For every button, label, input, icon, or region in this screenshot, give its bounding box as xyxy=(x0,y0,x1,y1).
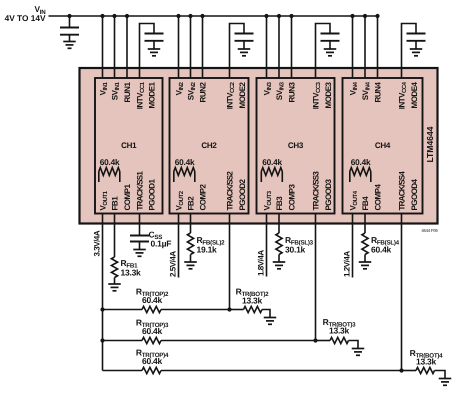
svg-text:13.3k: 13.3k xyxy=(329,326,350,336)
ground INTVCC3 bypass cap xyxy=(324,48,337,50)
svg-text:CH3: CH3 xyxy=(288,141,304,150)
capacitor CSS 0.1uF xyxy=(130,235,149,237)
svg-text:60.4k: 60.4k xyxy=(262,157,282,167)
svg-text:FB2: FB2 xyxy=(187,196,196,211)
wire VOUT1 down xyxy=(102,214,104,371)
junction TRACK/SS2 row2 xyxy=(227,307,231,311)
wire VIN rail to pin 1 CH1 xyxy=(114,16,116,78)
wire tracking row 2 mid xyxy=(161,309,230,311)
svg-text:13.3k: 13.3k xyxy=(242,296,263,306)
wire tracking row 2 left xyxy=(103,309,143,311)
wire INTVCC1 to bypass cap xyxy=(140,24,155,79)
svg-text:60.4k: 60.4k xyxy=(142,295,163,305)
resistor RTR(BOT)4 13.3k xyxy=(416,367,435,373)
svg-text:60.4k: 60.4k xyxy=(142,356,163,366)
svg-text:MODE3: MODE3 xyxy=(324,81,333,108)
svg-text:RUN2: RUN2 xyxy=(199,82,208,103)
ground RFB(SL)3 xyxy=(273,261,286,263)
resistor RTR(TOP)4 60.4k xyxy=(142,367,161,373)
svg-text:4V TO 14V: 4V TO 14V xyxy=(5,13,46,23)
junction VOUT1 row2 xyxy=(100,307,104,311)
svg-text:PGOOD2: PGOOD2 xyxy=(238,178,247,210)
wire VOUT2 stub xyxy=(178,214,180,278)
wire INTVCC3 to bypass cap xyxy=(316,24,331,79)
wire TRACK/SS1 down xyxy=(139,214,141,236)
wire VIN rail to pin 0 CH2 xyxy=(178,16,180,78)
ground CIN xyxy=(63,41,76,43)
svg-text:0.1µF: 0.1µF xyxy=(151,239,172,249)
resistor RFB(SL)2 19.1k xyxy=(187,233,193,255)
svg-text:MODE4: MODE4 xyxy=(410,81,419,108)
svg-text:13.3k: 13.3k xyxy=(121,268,142,278)
junction rail CH1-1 xyxy=(112,14,116,18)
svg-text:60.4k: 60.4k xyxy=(175,157,195,167)
wire VIN rail to pin 1 CH3 xyxy=(278,16,280,78)
wire VIN rail to pin 1 CH2 xyxy=(190,16,192,78)
ground INTVCC4 bypass cap xyxy=(410,48,423,50)
resistor RFB1 13.3k xyxy=(111,257,117,278)
ground RFB1 xyxy=(108,283,121,285)
wire TRACK/SS2 down xyxy=(229,214,231,310)
wire VIN rail to pin 1 CH4 xyxy=(364,16,366,78)
wire VIN rail to pin 2 CH4 xyxy=(377,16,379,78)
junction rail CH2-1 xyxy=(188,14,192,18)
resistor internal 60.4k CH3 xyxy=(260,172,262,183)
svg-text:CH4: CH4 xyxy=(375,141,391,150)
wire tracking row 4 mid xyxy=(161,370,402,372)
junction TRACK/SS4 row4 xyxy=(399,368,403,372)
svg-text:2.5V/4A: 2.5V/4A xyxy=(168,251,177,277)
svg-text:13.3k: 13.3k xyxy=(416,357,437,367)
junction rail CH1-2 xyxy=(125,14,129,18)
ground RTR(BOT)4 xyxy=(439,378,452,380)
svg-text:60.4k: 60.4k xyxy=(100,157,120,167)
junction TRACK/SS3 row3 xyxy=(313,338,317,342)
junction rail CH4-1 xyxy=(363,14,367,18)
capacitor CIN xyxy=(60,27,79,29)
resistor RTR(TOP)2 60.4k xyxy=(142,306,161,312)
junction rail CH2-0 xyxy=(176,14,180,18)
svg-text:LTM4644: LTM4644 xyxy=(425,126,435,162)
svg-text:TRACK/SS1: TRACK/SS1 xyxy=(136,171,145,211)
svg-text:CH1: CH1 xyxy=(121,141,137,150)
junction rail CH4-0 xyxy=(350,14,354,18)
svg-text:PGOOD3: PGOOD3 xyxy=(324,178,333,210)
wire RTR(BOT)2 to ground xyxy=(262,310,270,318)
capacitor INTVCC3 bypass xyxy=(321,33,340,35)
wire tracking row 4 left xyxy=(103,370,143,372)
svg-text:TRACK/SS3: TRACK/SS3 xyxy=(312,171,321,211)
resistor internal 60.4k CH2 xyxy=(173,172,175,183)
wire VIN rail to pin 0 CH3 xyxy=(266,16,268,78)
svg-text:CH2: CH2 xyxy=(201,141,217,150)
capacitor INTVCC1 bypass xyxy=(145,33,164,35)
channel block CH4 xyxy=(343,78,423,214)
wire RTR(BOT)3 to ground xyxy=(349,341,359,349)
wire INTVCC2 to bypass cap xyxy=(230,24,245,79)
wire VIN rail to pin 2 CH3 xyxy=(291,16,293,78)
wire TRACK/SS3 down xyxy=(315,214,317,341)
resistor RTR(BOT)2 13.3k xyxy=(244,306,263,312)
svg-text:RUN1: RUN1 xyxy=(123,82,132,103)
wire tracking row 3 left xyxy=(103,340,143,342)
svg-text:FB3: FB3 xyxy=(275,196,284,211)
wire tracking row 4 right xyxy=(402,370,417,372)
wire VIN rail to pin 2 CH2 xyxy=(202,16,204,78)
svg-text:FB4: FB4 xyxy=(361,196,370,211)
svg-text:MODE1: MODE1 xyxy=(148,81,157,108)
wire CIN drop xyxy=(69,16,71,28)
resistor internal 60.4k CH1 xyxy=(98,172,100,183)
ground RFB(SL)4 xyxy=(359,261,372,263)
resistor RTR(BOT)3 13.3k xyxy=(330,337,349,343)
svg-text:FB1: FB1 xyxy=(111,196,120,211)
resistor RFB(SL)4 60.4k xyxy=(362,233,368,255)
svg-text:RUN3: RUN3 xyxy=(288,82,297,103)
junction rail CH3-1 xyxy=(277,14,281,18)
wire FB4 down xyxy=(364,214,366,234)
channel block CH2 xyxy=(170,78,249,214)
wire tracking row 2 right xyxy=(230,309,244,311)
svg-text:RUN4: RUN4 xyxy=(374,82,383,103)
wire VIN rail to pin 2 CH1 xyxy=(126,16,128,78)
svg-text:19.1k: 19.1k xyxy=(197,245,218,255)
ground RFB(SL)2 xyxy=(184,261,197,263)
wire FB1 down xyxy=(114,214,116,258)
svg-text:COMP2: COMP2 xyxy=(199,184,208,211)
wire VIN rail to pin 0 CH4 xyxy=(352,16,354,78)
junction rail CH2-2 xyxy=(200,14,204,18)
wire FB3 down xyxy=(278,214,280,234)
svg-text:30.1k: 30.1k xyxy=(285,245,306,255)
wire RTR(BOT)4 to ground xyxy=(435,371,446,379)
junction VOUT1 row3 xyxy=(100,338,104,342)
svg-text:60.4k: 60.4k xyxy=(371,245,392,255)
junction rail CH3-0 xyxy=(264,14,268,18)
svg-text:PGOOD1: PGOOD1 xyxy=(148,178,157,210)
svg-text:COMP4: COMP4 xyxy=(374,184,383,211)
svg-text:60.4k: 60.4k xyxy=(351,157,371,167)
channel block CH1 xyxy=(95,78,163,214)
wire VOUT3 stub xyxy=(266,214,268,277)
svg-text:TRACK/SS2: TRACK/SS2 xyxy=(226,171,235,211)
junction rail CH4-2 xyxy=(375,14,379,18)
ground INTVCC1 bypass cap xyxy=(148,48,161,50)
svg-text:1.8V/4A: 1.8V/4A xyxy=(256,250,265,276)
resistor RFB(SL)3 30.1k xyxy=(276,233,282,255)
resistor internal 60.4k CH4 xyxy=(349,172,351,183)
wire INTVCC4 to bypass cap xyxy=(402,24,417,79)
ground INTVCC2 bypass cap xyxy=(238,48,251,50)
svg-text:1.2V/4A: 1.2V/4A xyxy=(342,251,351,277)
channel block CH3 xyxy=(257,78,335,214)
svg-text:60.4k: 60.4k xyxy=(142,326,163,336)
ground CSS xyxy=(133,249,146,251)
svg-text:COMP3: COMP3 xyxy=(288,184,297,211)
junction rail CH1-0 xyxy=(100,14,104,18)
op module LTM4644 body xyxy=(80,68,438,224)
ground RTR(BOT)3 xyxy=(352,348,365,350)
svg-text:COMP1: COMP1 xyxy=(123,184,132,211)
resistor RTR(TOP)3 60.4k xyxy=(142,337,161,343)
svg-text:4644 F05: 4644 F05 xyxy=(421,228,438,233)
wire TRACK/SS4 down xyxy=(401,214,403,371)
svg-text:3.3V/4A: 3.3V/4A xyxy=(92,230,101,256)
wire VIN rail xyxy=(49,15,378,17)
svg-text:TRACK/SS4: TRACK/SS4 xyxy=(398,171,407,211)
wire VOUT4 stub xyxy=(352,214,354,278)
svg-text:MODE2: MODE2 xyxy=(238,81,247,108)
capacitor INTVCC4 bypass xyxy=(407,33,426,35)
wire tracking row 3 mid xyxy=(161,340,316,342)
junction rail CH3-2 xyxy=(289,14,293,18)
capacitor INTVCC2 bypass xyxy=(235,33,254,35)
junction VIN-CIN xyxy=(67,14,71,18)
wire tracking row 3 right xyxy=(316,340,331,342)
wire VIN rail to pin 0 CH1 xyxy=(102,16,104,78)
wire FB2 down xyxy=(190,214,192,234)
ground RTR(BOT)2 xyxy=(264,317,277,319)
svg-text:PGOOD4: PGOOD4 xyxy=(410,178,419,210)
